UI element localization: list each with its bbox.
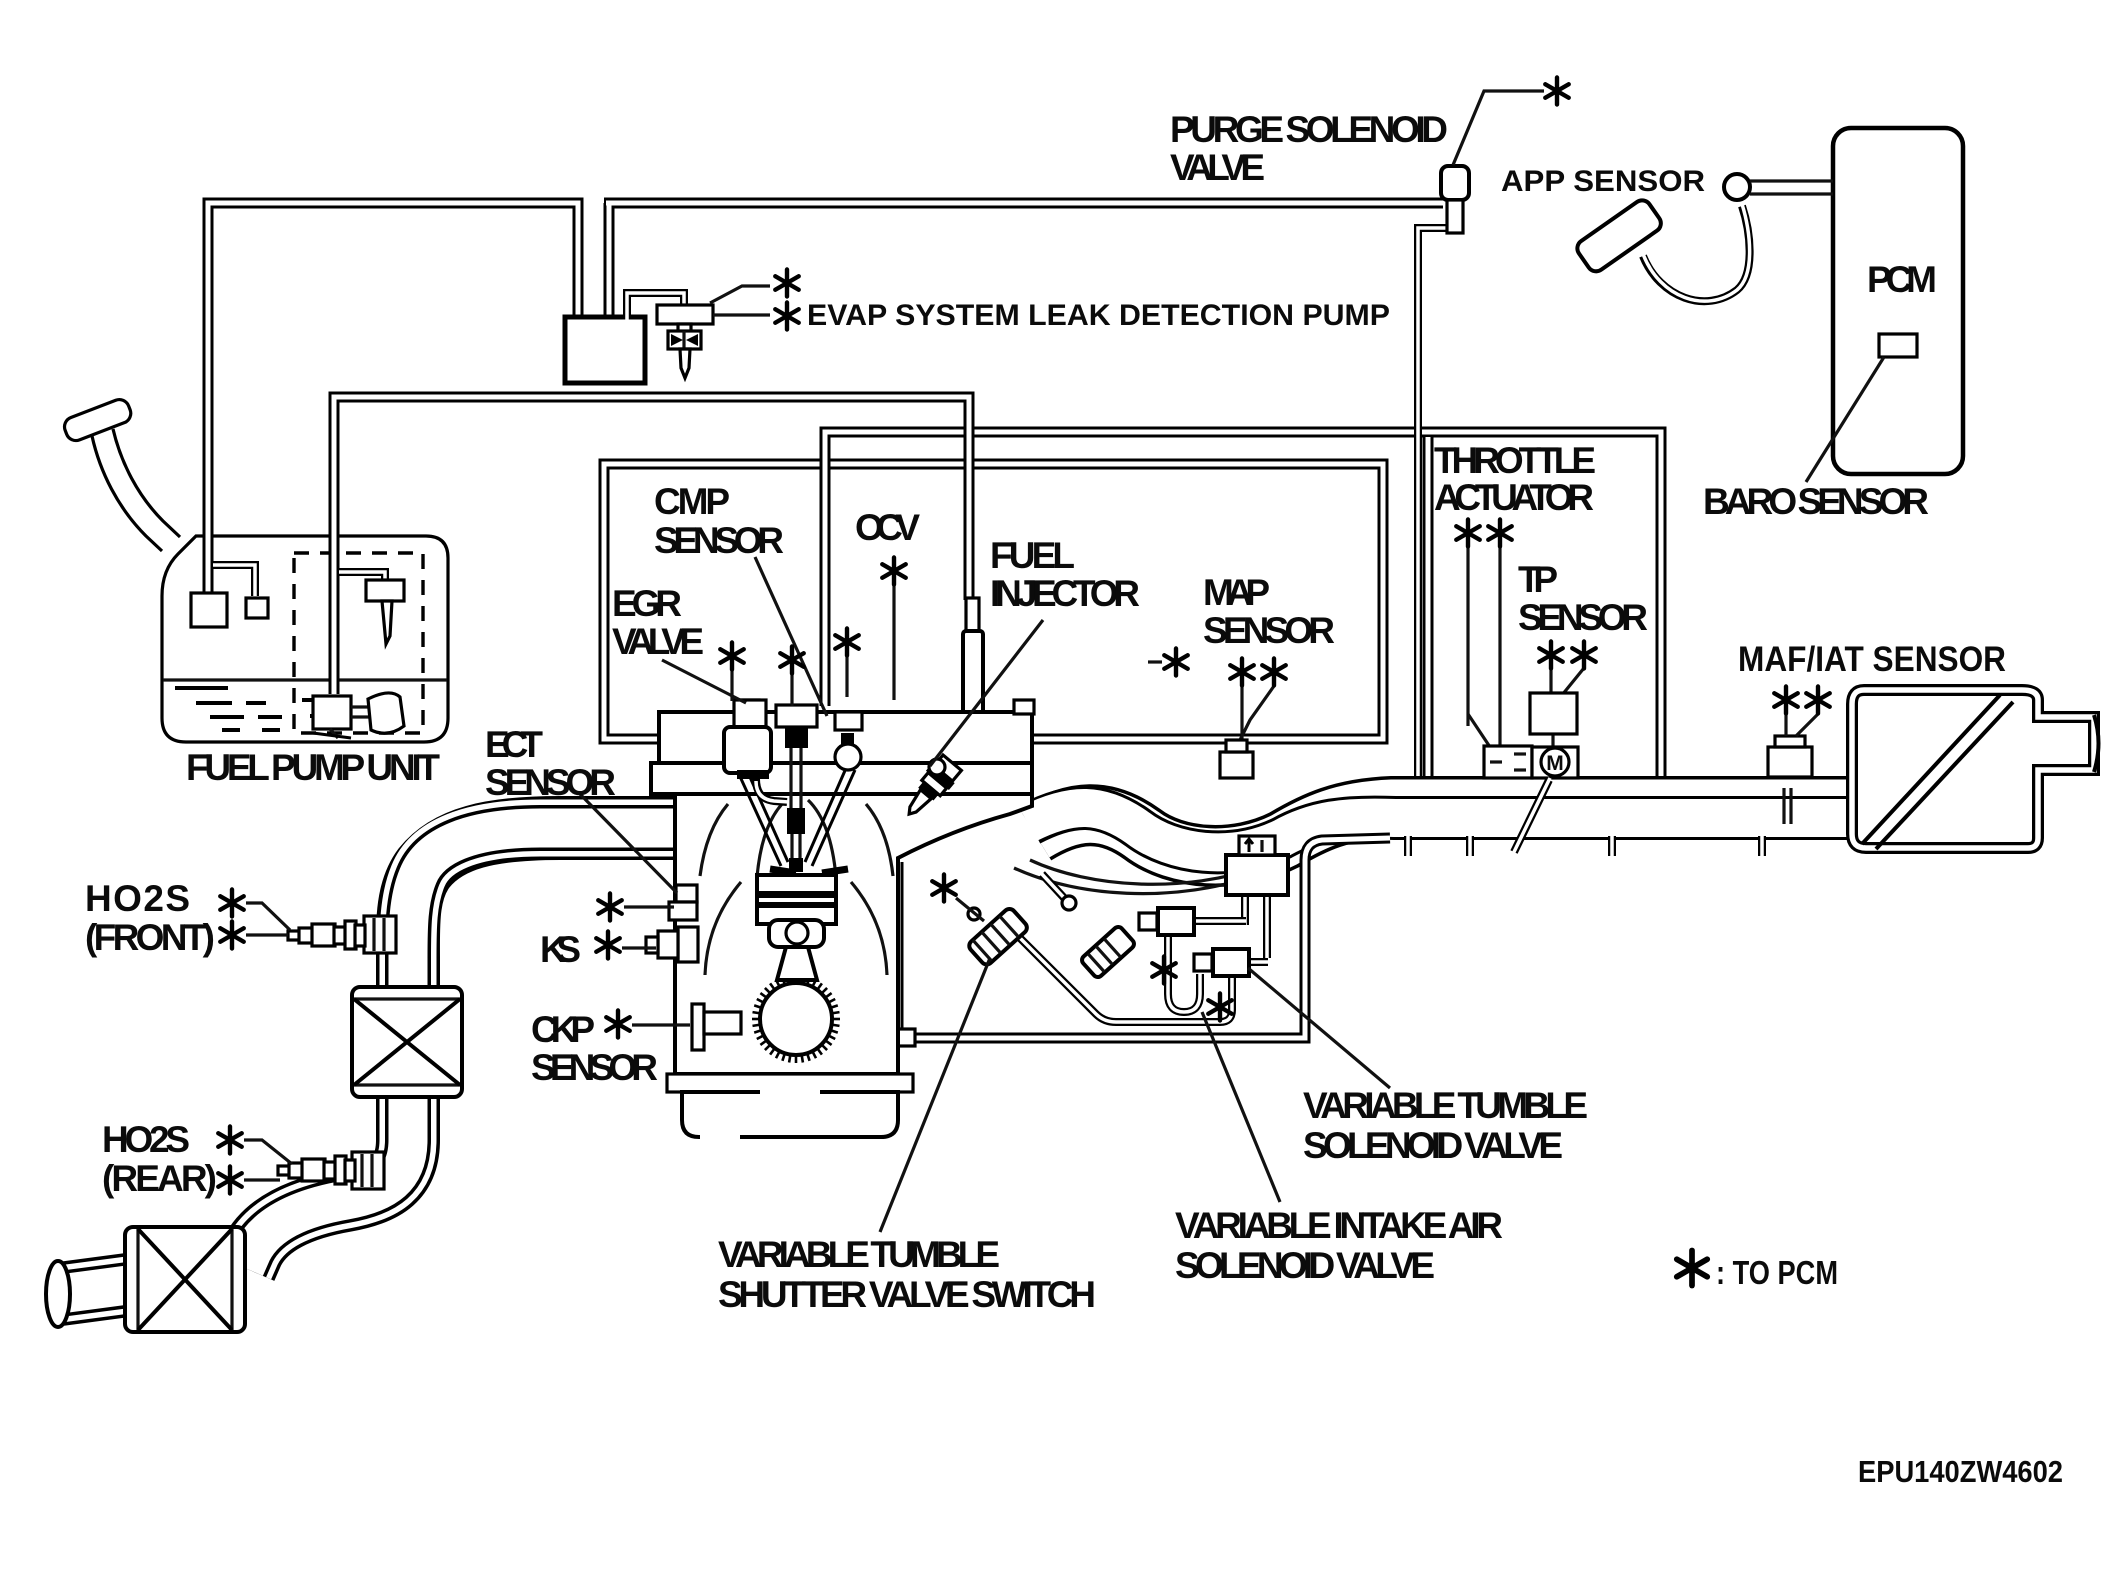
svg-text:SENSOR: SENSOR	[531, 1047, 658, 1088]
svg-text:(FRONT): (FRONT)	[85, 917, 215, 958]
svg-text:PURGE SOLENOID: PURGE SOLENOID	[1170, 109, 1448, 150]
svg-text:VALVE: VALVE	[612, 621, 704, 662]
svg-text:THROTTLE: THROTTLE	[1434, 440, 1596, 481]
svg-text:SENSOR: SENSOR	[485, 762, 616, 803]
svg-text:OCV: OCV	[855, 507, 920, 548]
svg-text:FUEL PUMP UNIT: FUEL PUMP UNIT	[186, 747, 440, 788]
svg-text:ECT: ECT	[485, 724, 543, 765]
svg-text:CMP: CMP	[654, 481, 730, 522]
svg-text:SHUTTER VALVE SWITCH: SHUTTER VALVE SWITCH	[718, 1274, 1096, 1315]
svg-text:EVAP SYSTEM LEAK DETECTION PUM: EVAP SYSTEM LEAK DETECTION PUMP	[807, 299, 1390, 332]
svg-text:CKP: CKP	[531, 1009, 595, 1050]
svg-text:MAF/IAT SENSOR: MAF/IAT SENSOR	[1738, 640, 2006, 679]
svg-text:BARO SENSOR: BARO SENSOR	[1703, 481, 1929, 522]
svg-text:FUEL: FUEL	[990, 535, 1075, 576]
svg-text:PCM: PCM	[1867, 259, 1937, 300]
svg-text:HO2S: HO2S	[102, 1119, 190, 1160]
svg-text:INJECTOR: INJECTOR	[990, 573, 1140, 614]
svg-text:SENSOR: SENSOR	[654, 520, 784, 561]
svg-text:SOLENOID VALVE: SOLENOID VALVE	[1303, 1125, 1563, 1166]
svg-text:APP SENSOR: APP SENSOR	[1501, 165, 1705, 198]
svg-text:SOLENOID VALVE: SOLENOID VALVE	[1175, 1245, 1435, 1286]
svg-text:: TO PCM: : TO PCM	[1716, 1254, 1838, 1291]
svg-text:EGR: EGR	[612, 583, 682, 624]
svg-text:TP: TP	[1518, 559, 1558, 600]
svg-text:SENSOR: SENSOR	[1518, 597, 1648, 638]
svg-text:VARIABLE TUMBLE: VARIABLE TUMBLE	[718, 1234, 1000, 1275]
svg-text:M: M	[1546, 752, 1564, 775]
svg-text:SENSOR: SENSOR	[1203, 610, 1335, 651]
svg-text:KS: KS	[540, 929, 581, 970]
svg-text:VARIABLE TUMBLE: VARIABLE TUMBLE	[1303, 1085, 1588, 1126]
svg-text:VALVE: VALVE	[1170, 147, 1265, 188]
svg-text:(REAR): (REAR)	[102, 1158, 217, 1199]
svg-text:MAP: MAP	[1203, 572, 1270, 613]
svg-text:EPU140ZW4602: EPU140ZW4602	[1858, 1454, 2063, 1489]
svg-text:VARIABLE INTAKE AIR: VARIABLE INTAKE AIR	[1175, 1205, 1503, 1246]
svg-text:HO2S: HO2S	[85, 878, 190, 919]
svg-text:ACTUATOR: ACTUATOR	[1434, 477, 1594, 518]
